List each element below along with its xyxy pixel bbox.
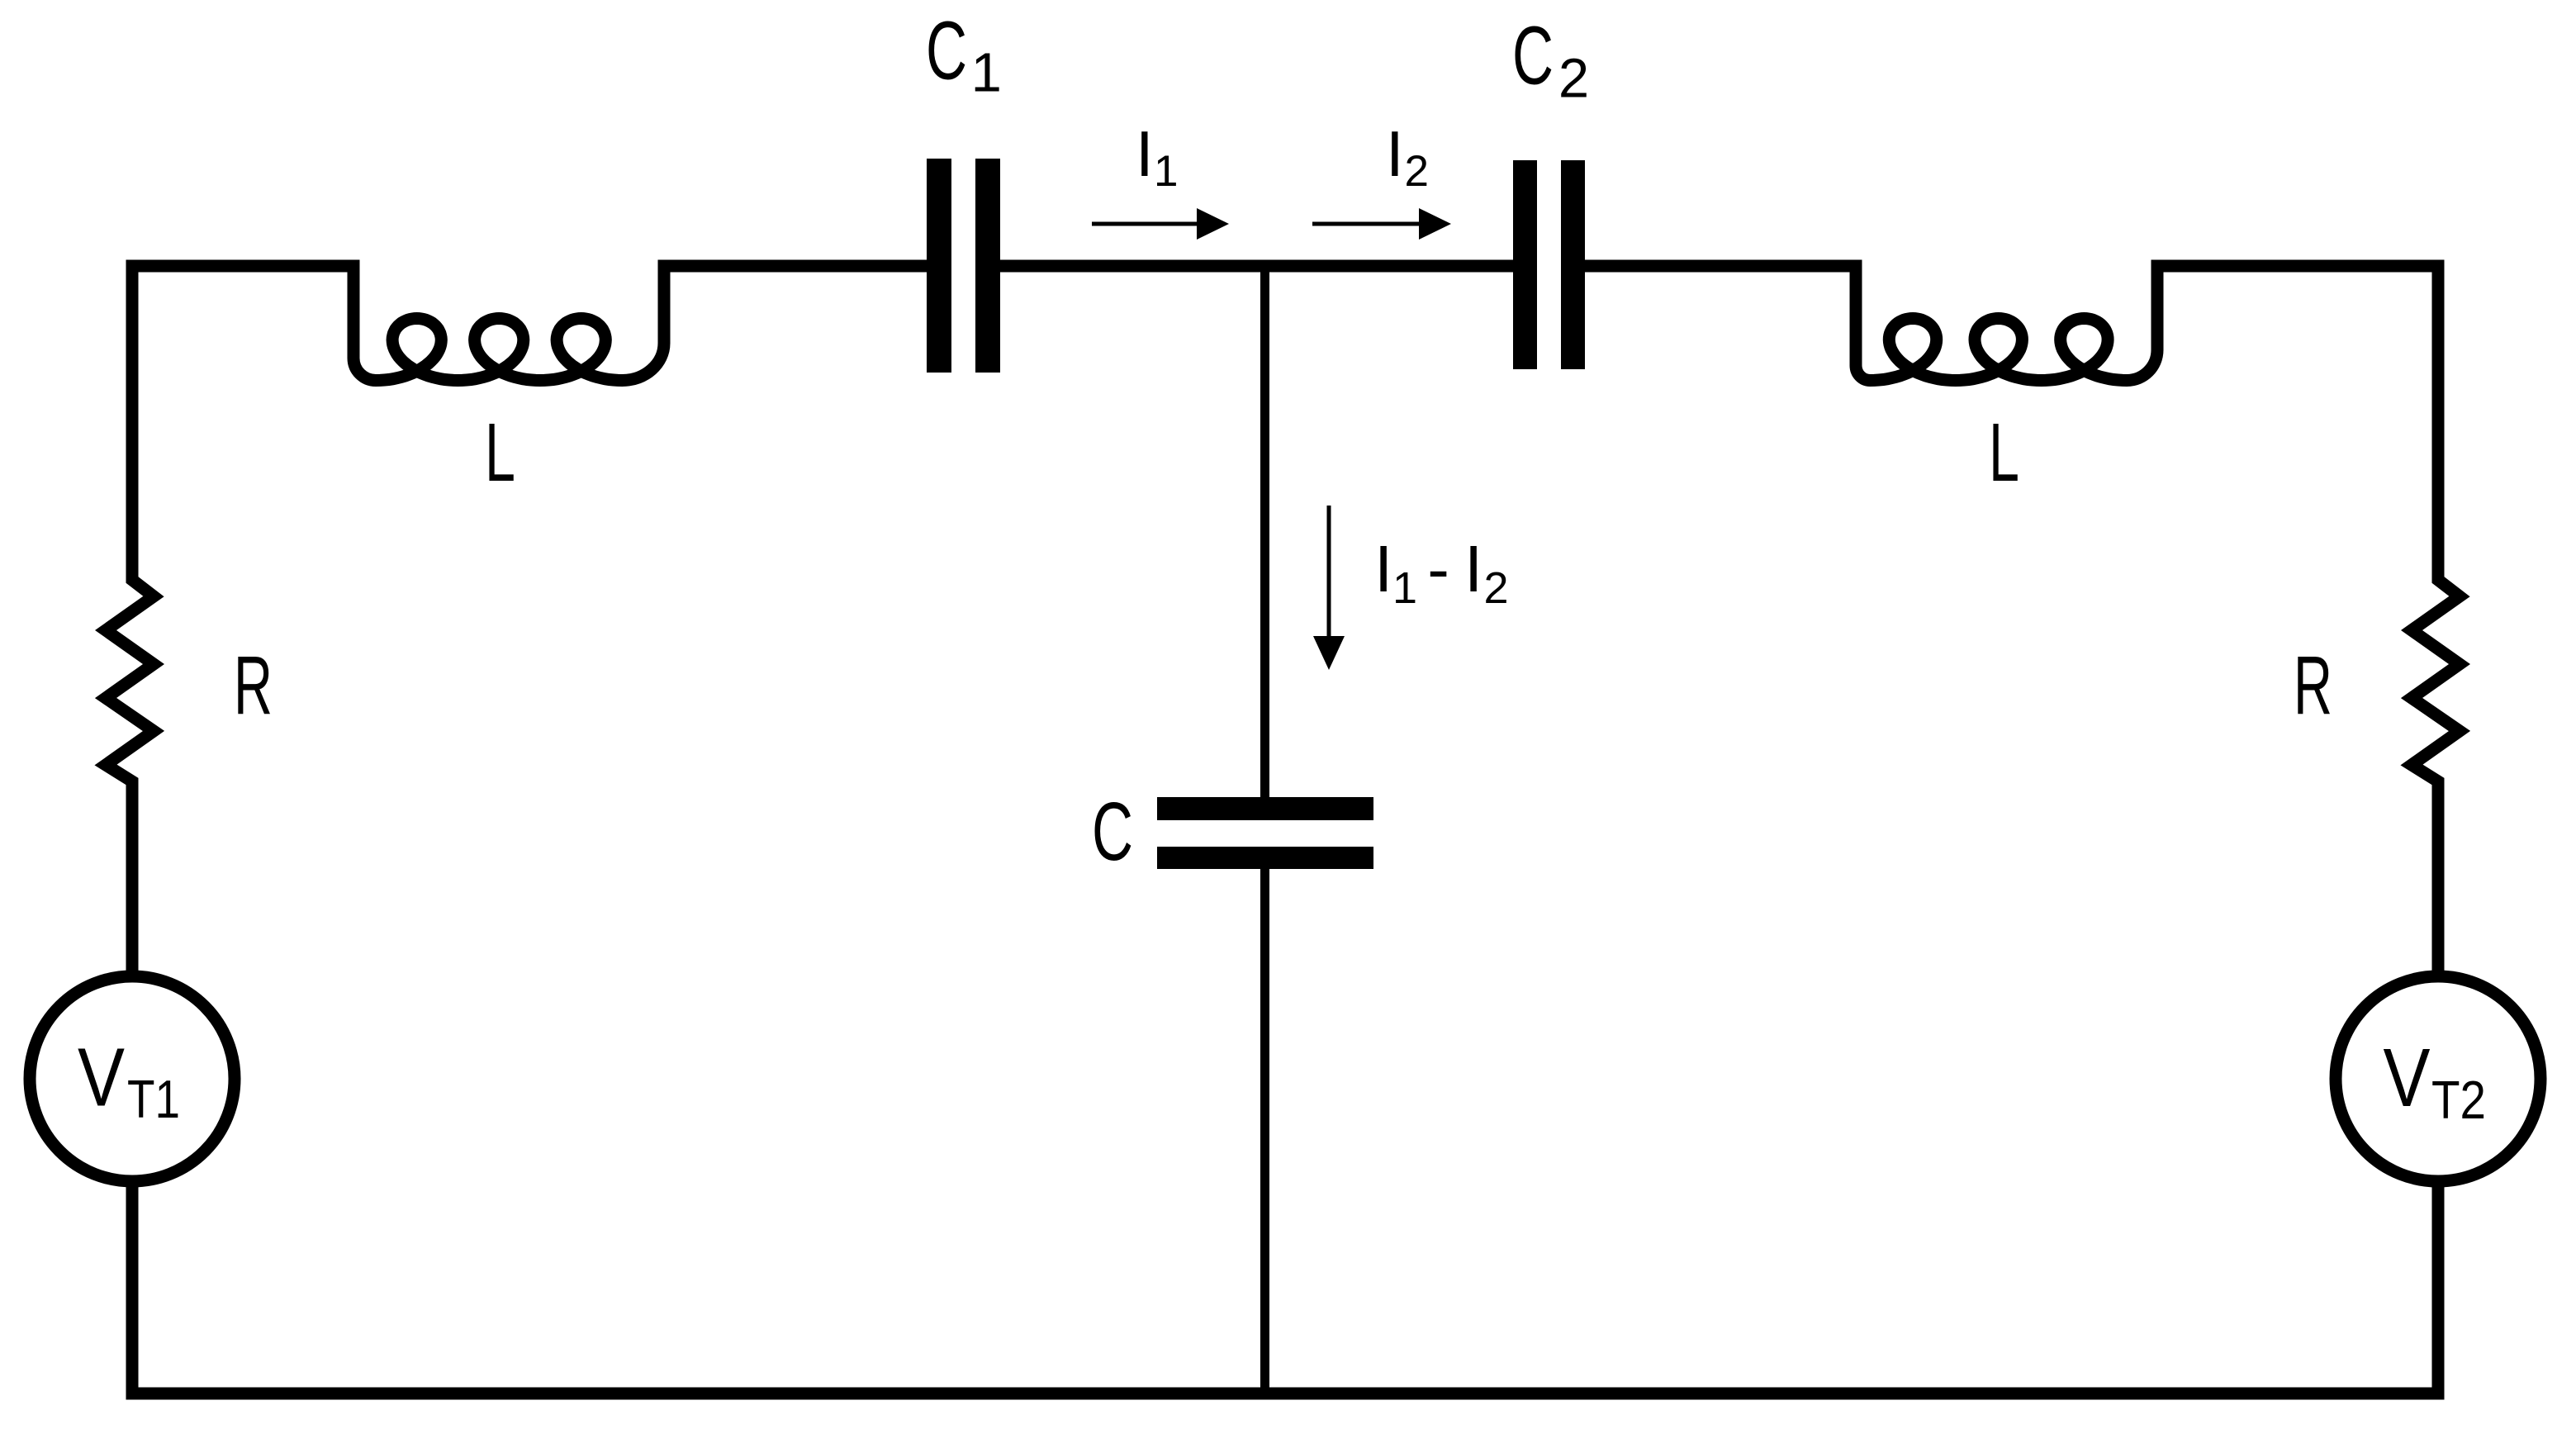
- svg-text:-: -: [1427, 532, 1449, 605]
- svg-text:T1: T1: [127, 1069, 180, 1129]
- svg-text:I: I: [1386, 117, 1404, 190]
- svg-text:I: I: [1464, 532, 1483, 605]
- svg-text:1: 1: [1154, 147, 1178, 196]
- svg-text:L: L: [485, 406, 515, 499]
- svg-text:I: I: [1136, 117, 1154, 190]
- svg-text:V: V: [2384, 1032, 2431, 1124]
- svg-text:I: I: [1374, 532, 1392, 605]
- svg-text:2: 2: [1484, 563, 1509, 613]
- svg-text:T2: T2: [2431, 1070, 2486, 1130]
- svg-text:1: 1: [971, 42, 1002, 104]
- svg-text:C: C: [1092, 786, 1133, 878]
- svg-text:V: V: [78, 1032, 125, 1124]
- svg-text:2: 2: [1558, 48, 1589, 110]
- svg-text:C: C: [1512, 10, 1554, 102]
- svg-text:R: R: [2294, 639, 2332, 732]
- svg-text:C: C: [926, 5, 967, 97]
- svg-text:2: 2: [1405, 147, 1429, 196]
- svg-text:L: L: [1989, 406, 2019, 499]
- svg-text:R: R: [234, 639, 273, 732]
- svg-text:1: 1: [1392, 563, 1417, 613]
